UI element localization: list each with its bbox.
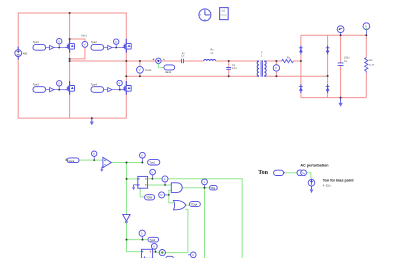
wire rectifier top rail — [301, 34, 366, 36]
capacitor Cp — [226, 63, 237, 70]
svg-text:0.1u: 0.1u — [232, 66, 238, 70]
voltmeter secondary — [273, 65, 279, 71]
ground bridge — [90, 118, 94, 125]
wire bridge outer loop — [18, 13, 126, 118]
svg-text:V: V — [151, 170, 153, 174]
goto tag zero-cross — [148, 160, 160, 165]
MOSFET Q2 (top right) — [122, 39, 131, 53]
AND gate — [171, 183, 182, 193]
svg-text:Vtank: Vtank — [145, 68, 152, 72]
svg-text:Tps2: Tps2 — [91, 40, 98, 44]
junction dots control — [93, 159, 205, 253]
tag Ton — [274, 170, 286, 175]
svg-text:V: V — [153, 245, 155, 249]
svg-text:V: V — [58, 39, 60, 43]
NOT gate — [123, 214, 130, 223]
wire Co branch — [340, 35, 342, 97]
wire FF2 output — [153, 251, 159, 254]
wire AND output vertical drop — [204, 188, 206, 258]
svg-text:Tps3: Tps3 — [33, 82, 40, 86]
probe V y239 — [139, 230, 145, 240]
wire rectifier bottom rail — [301, 97, 366, 99]
svg-text:Ton for bias point: Ton for bias point — [323, 179, 355, 183]
svg-text:Rs: Rs — [210, 47, 214, 51]
svg-text:Cs: Cs — [181, 54, 185, 58]
diode D3 — [299, 84, 303, 93]
inductor Ls — [204, 47, 216, 61]
wire tank bottom rail — [126, 75, 327, 77]
wire FF1 Qb to AND — [148, 184, 172, 186]
MOSFET Q4 (bottom right) — [122, 81, 131, 95]
wire Vds1 sense bottom elbow — [70, 47, 85, 59]
wire rectifier left leg — [300, 35, 302, 97]
DC source Ton bias — [308, 179, 354, 188]
ground FF1 reset — [132, 185, 138, 190]
voltmeter Vds1 — [81, 34, 88, 48]
wire comparator output — [111, 162, 142, 164]
capacitor Cs — [181, 51, 185, 63]
svg-text:V: V — [203, 180, 205, 184]
wire Cp branch — [228, 61, 230, 76]
resistor Ro — [365, 58, 375, 73]
goto tag AND output — [210, 185, 218, 190]
flip-flop FF2 — [141, 249, 152, 258]
voltmeter Vtank — [137, 66, 153, 73]
svg-text:TDq4: TDq4 — [191, 203, 198, 207]
wire Vtank meter leads — [139, 61, 141, 76]
ground bias source — [310, 186, 314, 193]
svg-text:Tps1: Tps1 — [33, 40, 40, 44]
svg-text:V: V — [192, 253, 194, 257]
gate tag Tps1 — [33, 40, 66, 50]
from tag Itank (control) — [66, 158, 79, 163]
svg-text:Vds1: Vds1 — [81, 34, 87, 38]
wire secondary top rail — [264, 60, 301, 62]
probe V FF1 Q — [150, 169, 156, 179]
gate probe Vgs4 — [117, 80, 122, 89]
svg-text:V: V — [118, 81, 120, 85]
svg-text:V: V — [84, 43, 86, 47]
diode D4 — [326, 84, 330, 93]
svg-text:TDq: TDq — [210, 186, 215, 190]
wire OR output — [186, 204, 190, 206]
svg-text:400: 400 — [23, 51, 28, 55]
gate probe Vgs3 — [57, 81, 62, 90]
svg-text:Ls: Ls — [211, 51, 214, 55]
svg-text:TDW: TDW — [146, 196, 152, 200]
wire bridge left leg — [69, 13, 71, 118]
comparator U1 — [100, 157, 111, 172]
probe V AND output — [202, 179, 208, 188]
svg-text:4. 92u: 4. 92u — [323, 184, 331, 188]
probe V FF2 — [151, 243, 157, 251]
ammeter Io — [337, 26, 344, 35]
diode D1 — [299, 46, 303, 55]
probe V corner — [188, 252, 196, 258]
wire rectifier right leg — [327, 35, 329, 97]
wire secondary voltmeter leads — [275, 61, 277, 76]
gate probe Vgs1 — [57, 39, 62, 48]
wire to FF1 set input — [127, 178, 138, 180]
tag FF1 bottom — [145, 195, 155, 200]
svg-text:1: 1 — [261, 54, 263, 58]
svg-text:Itank: Itank — [165, 70, 172, 74]
partial tag bottom edge — [166, 256, 173, 258]
wire y239 tag branch — [127, 239, 149, 241]
probe V comparator input — [92, 151, 97, 160]
svg-text:V: V — [115, 40, 117, 44]
goto tag Itank — [164, 65, 175, 74]
probe b on Q wire — [162, 176, 168, 185]
wire tank top rail — [70, 60, 259, 62]
MOSFET Q1 (top left) — [65, 39, 74, 53]
clock block — [199, 9, 211, 21]
svg-text:V: V — [58, 82, 60, 86]
svg-text:V: V — [141, 153, 143, 157]
gate tag Tps4 — [91, 82, 123, 92]
flip-flop FF1 — [138, 176, 148, 189]
model settings block — [220, 8, 229, 20]
svg-text:AC perturbation: AC perturbation — [300, 164, 329, 168]
ground output — [339, 98, 343, 107]
svg-text:Ton: Ton — [258, 170, 268, 176]
wire AC source to bias source — [307, 173, 311, 179]
goto tag OR output — [190, 202, 201, 207]
power wiring nets — [18, 13, 366, 118]
wire Ton to AC source — [285, 172, 297, 174]
wire AND lower input riser — [169, 190, 174, 203]
wire FF1 bottom pin to tag — [140, 189, 144, 197]
svg-text:Tps2: Tps2 — [150, 238, 156, 242]
DC source V_in 400 — [15, 47, 28, 60]
svg-text:V: V — [93, 152, 95, 156]
wire AND output — [183, 187, 210, 189]
ammeter Itank — [153, 58, 165, 63]
svg-text:P: P — [161, 193, 163, 197]
svg-text:1: 1 — [261, 50, 263, 54]
transformer T1 — [257, 50, 267, 77]
probe on FF2 output wire — [159, 250, 165, 256]
capacitor Co — [338, 55, 351, 65]
wire main vertical bus — [127, 163, 142, 252]
probe V comparator output — [140, 152, 146, 162]
gate tag Tps3 — [33, 82, 66, 92]
svg-text:Ro: Ro — [369, 58, 373, 62]
diode D2 — [326, 46, 330, 55]
goto tag Tps2 — [148, 237, 159, 242]
wire Itank probe stem (green) — [158, 64, 164, 68]
svg-text:Tps4: Tps4 — [91, 82, 98, 86]
AC perturbation source — [297, 164, 329, 176]
svg-text:Itank: Itank — [69, 159, 75, 163]
wire from-tag to comparator — [79, 159, 103, 161]
svg-text:Co: Co — [344, 59, 348, 63]
svg-text:0.77: 0.77 — [369, 63, 375, 67]
svg-text:Tps1: Tps1 — [149, 161, 155, 165]
svg-text:sweep: sweep — [220, 14, 227, 16]
junction dots power — [58, 12, 367, 119]
control wiring nets — [79, 160, 242, 258]
gate tag Tps2 — [91, 40, 123, 50]
resistor Rs secondary — [282, 55, 294, 62]
OR gate — [174, 200, 186, 209]
wire load branch — [365, 35, 367, 97]
MOSFET Q3 (bottom left) — [65, 81, 74, 95]
wire OR lower feedback — [166, 209, 188, 252]
voltmeter Vo — [363, 23, 370, 35]
wire FF1 Q to corner feedback — [148, 179, 243, 258]
wire Vds1 sense top elbow — [70, 39, 85, 42]
gate probe Vgs2 — [114, 39, 119, 48]
probe P — [159, 192, 169, 198]
svg-text:V: V — [141, 231, 143, 235]
svg-text:100u: 100u — [344, 55, 350, 59]
